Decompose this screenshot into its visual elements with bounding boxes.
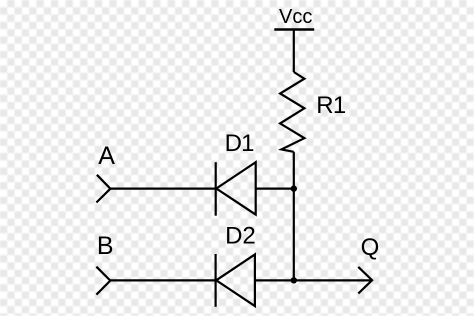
svg-text:R1: R1 — [316, 92, 346, 119]
svg-text:A: A — [98, 142, 115, 170]
svg-text:Vcc: Vcc — [279, 6, 312, 28]
wire Vcc rail to resistor R1 top — [293, 30, 295, 73]
svg-text:B: B — [97, 232, 114, 260]
wire resistor R1 bottom to node 1 and node 2 — [293, 152, 295, 280]
wire input B to diode D2 cathode — [110, 279, 215, 281]
Vcc power rail bar — [274, 28, 314, 31]
input B arrow — [96, 267, 110, 295]
input A arrow — [96, 175, 110, 203]
wire diode D1 anode to node 1 — [256, 188, 294, 190]
output Q arrow — [358, 267, 372, 294]
wire node 2 to output Q — [294, 279, 371, 281]
diode D2 — [216, 254, 255, 307]
node junction 1 (D1 anode / R1) — [291, 185, 297, 191]
svg-text:D2: D2 — [225, 222, 256, 249]
wire diode D2 anode to node 2 — [255, 279, 294, 281]
node junction 2 (D2 anode / output Q) — [291, 277, 297, 283]
svg-text:Q: Q — [361, 234, 380, 261]
diode D1 — [216, 162, 256, 216]
resistor R1 — [280, 72, 304, 152]
wire input A to diode D1 cathode — [110, 188, 215, 190]
svg-text:D1: D1 — [225, 130, 255, 157]
